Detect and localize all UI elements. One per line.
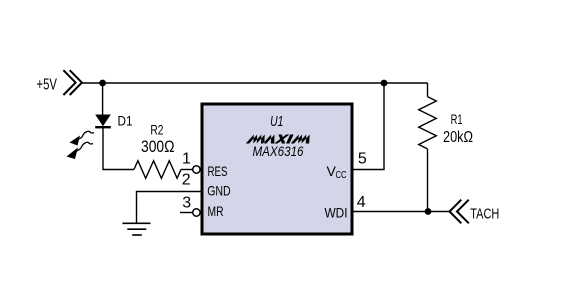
diode D1 (LED) triangle bbox=[95, 115, 111, 127]
svg-text:R2: R2 bbox=[150, 122, 163, 138]
wire pin 2 GND to ground bbox=[137, 192, 203, 223]
resistor R1 bottom lead bbox=[427, 149, 429, 212]
MAXIM logo bbox=[246, 135, 314, 144]
svg-text:20kΩ: 20kΩ bbox=[443, 129, 473, 146]
diode D1 cathode bar bbox=[95, 126, 111, 128]
wire from top rail down to D1 anode bbox=[102, 83, 104, 115]
svg-text:5: 5 bbox=[358, 150, 367, 167]
node junction VCC / top rail bbox=[381, 80, 388, 87]
svg-text:U1: U1 bbox=[270, 114, 283, 130]
resistor R1 top lead bbox=[427, 83, 429, 97]
node junction at D1 branch bbox=[99, 80, 106, 87]
wire top rail bbox=[82, 82, 428, 84]
resistor R1 zigzag bbox=[419, 97, 437, 149]
svg-text:RES: RES bbox=[208, 163, 228, 179]
svg-text:R1: R1 bbox=[451, 111, 463, 127]
ground symbol bbox=[123, 223, 151, 235]
svg-text:300Ω: 300Ω bbox=[141, 138, 175, 156]
svg-text:GND: GND bbox=[207, 183, 231, 199]
svg-text:D1: D1 bbox=[118, 113, 133, 129]
svg-text:+5V: +5V bbox=[37, 77, 58, 94]
pin 3 stub wire bbox=[180, 212, 193, 214]
svg-text:1: 1 bbox=[182, 150, 191, 167]
pin 1 circle (RES) bbox=[193, 166, 200, 173]
pin 3 circle (MR) bbox=[193, 209, 200, 216]
svg-text:2: 2 bbox=[182, 172, 191, 189]
wire from R2 to pin 1 bbox=[181, 169, 193, 171]
svg-text:TACH: TACH bbox=[470, 206, 499, 223]
TACH off-page connector chevron bbox=[450, 200, 469, 224]
node junction R1 / WDI bbox=[425, 208, 432, 215]
svg-text:3: 3 bbox=[182, 195, 191, 212]
svg-text:WDI: WDI bbox=[325, 204, 348, 220]
LED emission arrow upper bbox=[77, 131, 94, 139]
svg-text:CC: CC bbox=[336, 169, 347, 181]
svg-text:MAX6316: MAX6316 bbox=[253, 143, 304, 159]
resistor R2 zigzag bbox=[134, 161, 181, 179]
wire pin 5 VCC up to top rail bbox=[352, 83, 384, 170]
op-amp/IC U1 body MAX6316 bbox=[202, 104, 352, 234]
wire pin 4 WDI to TACH bbox=[352, 211, 450, 213]
wire from D1 cathode down and right to R2 bbox=[103, 127, 134, 169]
+5V off-page connector chevron bbox=[63, 70, 82, 95]
svg-text:MR: MR bbox=[208, 203, 224, 219]
LED emission arrow lower bbox=[75, 142, 93, 151]
svg-text:4: 4 bbox=[357, 194, 366, 211]
